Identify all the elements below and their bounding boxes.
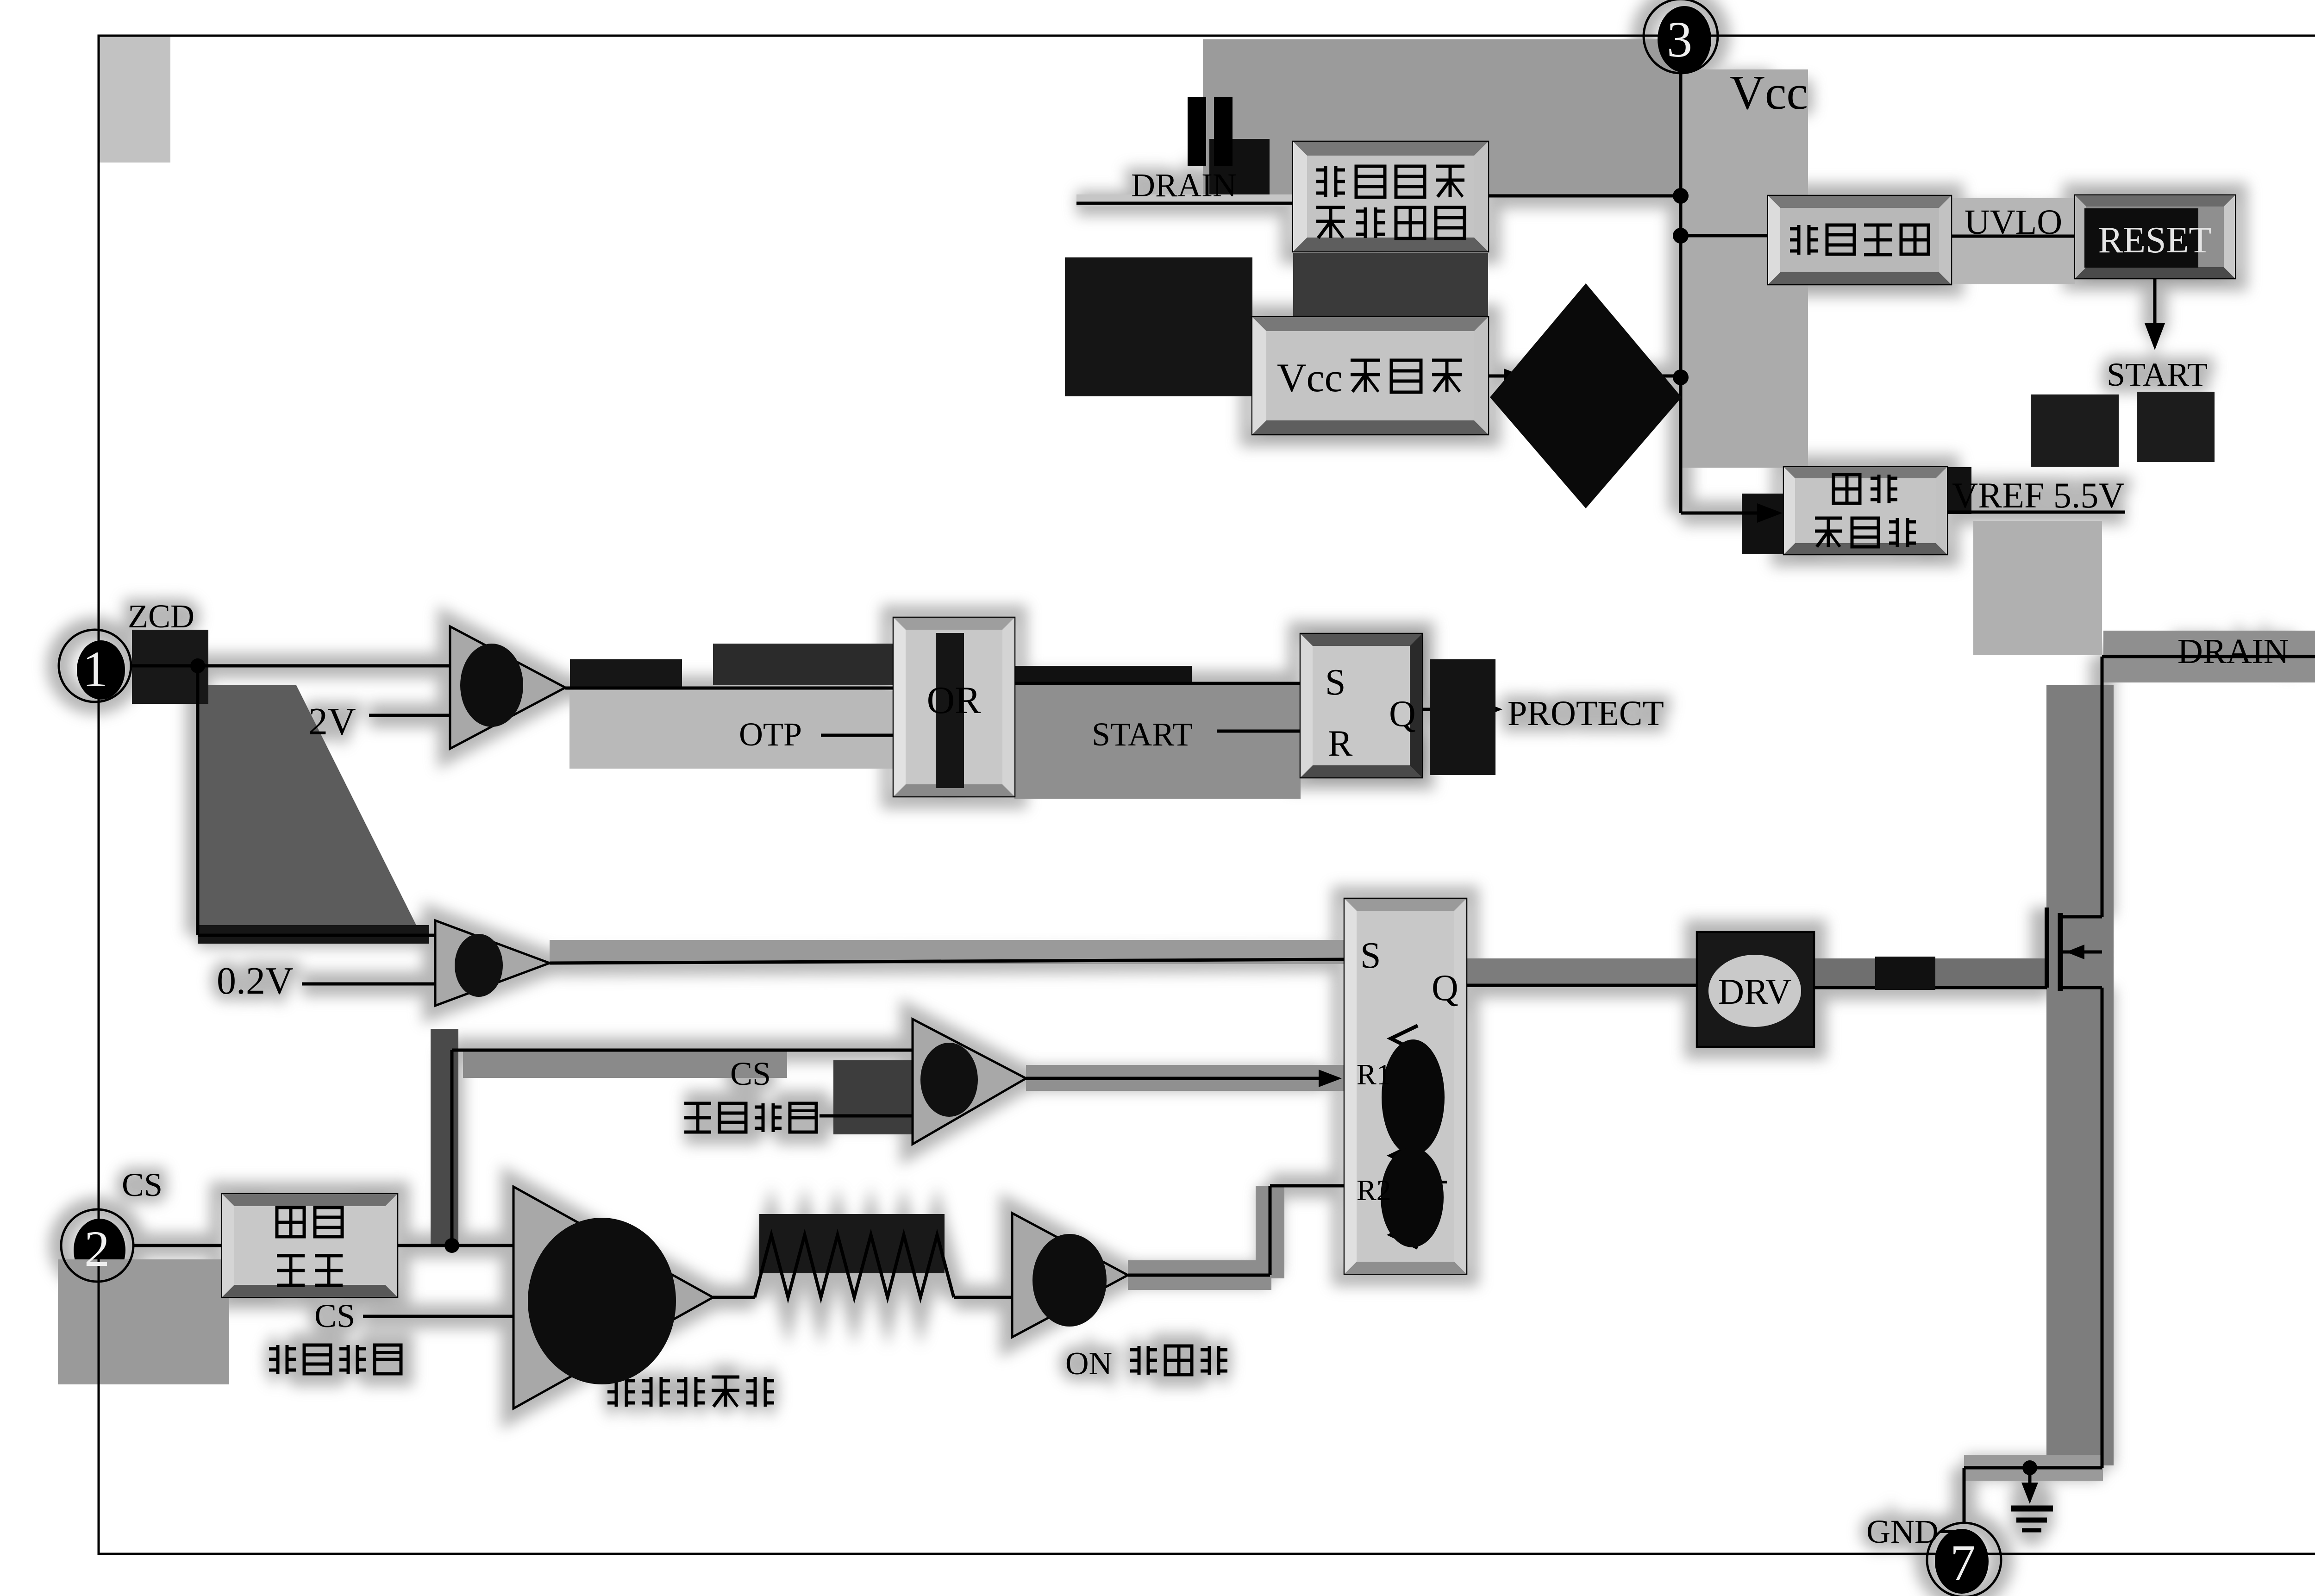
svg-text:R1: R1 bbox=[1357, 1058, 1391, 1091]
wire DRAIN to HV module bbox=[1076, 202, 1293, 205]
block: internal voltage rail (内部电压轨) bbox=[1784, 467, 1947, 554]
svg-text:0.2V: 0.2V bbox=[217, 959, 294, 1002]
wire GND stub down bbox=[2028, 1468, 2032, 1489]
wire OR to latch FF1 (START) bbox=[1014, 682, 1301, 685]
comparator U5 (ON comparator) bbox=[1012, 1213, 1128, 1337]
svg-text:ZCD: ZCD bbox=[128, 598, 194, 635]
svg-text:1: 1 bbox=[82, 641, 108, 697]
svg-text:START: START bbox=[2107, 356, 2208, 393]
svg-text:GND: GND bbox=[1866, 1513, 1939, 1550]
wire ZCD to 0.2V comparator bbox=[198, 934, 435, 937]
comparator U2 (0.2V threshold) bbox=[435, 920, 550, 1006]
svg-text:CS: CS bbox=[122, 1166, 163, 1203]
latch FF2 (SR with R1 R2) box bbox=[1345, 899, 1466, 1274]
block: VCC zener (VCC 稳压管) bbox=[1252, 317, 1488, 434]
pin 7 (GND) circle bbox=[1927, 1523, 2001, 1596]
node junction CS bbox=[444, 1238, 459, 1253]
svg-text:DRAIN: DRAIN bbox=[2177, 632, 2289, 671]
svg-text:S: S bbox=[1325, 662, 1346, 703]
gate: OR box bbox=[894, 618, 1014, 796]
svg-text:PROTECT: PROTECT bbox=[1508, 694, 1664, 733]
wire R1-R2 tap bbox=[1418, 1181, 1447, 1183]
wire CS to polarity box bbox=[133, 1244, 222, 1247]
pin 3 (Vcc) circle bbox=[1644, 0, 1718, 73]
wire FF2 Q to DRV bbox=[1466, 984, 1697, 987]
wire RESET to START bbox=[2153, 278, 2157, 332]
svg-text:R: R bbox=[1328, 723, 1353, 764]
wire ZCD to comparator bbox=[131, 664, 450, 668]
svg-text:CS: CS bbox=[314, 1297, 355, 1334]
node junction Vcc-UVdet bbox=[1673, 228, 1689, 244]
svg-text:Q: Q bbox=[1432, 968, 1458, 1008]
svg-text:RESET: RESET bbox=[2098, 220, 2211, 261]
wire zener to Vcc bbox=[1488, 375, 1681, 378]
wire UV-detect to RESET bbox=[1951, 235, 2075, 238]
svg-text:Vcc: Vcc bbox=[1277, 356, 1343, 401]
pin 2 (CS) circle bbox=[61, 1209, 133, 1282]
wire U1 output to OR bbox=[565, 687, 894, 690]
svg-text:CS: CS bbox=[730, 1055, 771, 1092]
label transconductance amp (跨导放大器) bbox=[615, 1377, 618, 1407]
wire FF1 R stub bbox=[1217, 730, 1301, 733]
wire 2V ref stub bbox=[369, 714, 450, 717]
svg-text:2: 2 bbox=[84, 1220, 110, 1277]
resistor R2 (internal) bbox=[1391, 1143, 1418, 1248]
block: undervoltage detect (欠压检测) bbox=[1768, 196, 1951, 284]
amplifier U3 (transconductance 跨导放大器) bbox=[513, 1187, 713, 1408]
block: polarity conversion (极性转换) bbox=[222, 1194, 397, 1297]
wire DRAIN vertical to MOSFET bbox=[2101, 657, 2104, 917]
svg-text:Q: Q bbox=[1389, 694, 1416, 734]
node junction GND bbox=[2022, 1460, 2037, 1475]
svg-text:DRV: DRV bbox=[1718, 971, 1791, 1012]
svg-text:7: 7 bbox=[1950, 1534, 1976, 1591]
transistor Q1 (output NMOS) bbox=[2058, 913, 2063, 991]
svg-text:OR: OR bbox=[927, 679, 981, 722]
wire FF1 Q to PROTECT bbox=[1422, 708, 1463, 711]
wire Vcc to internal rail bbox=[1681, 512, 1759, 515]
svg-text:3: 3 bbox=[1667, 11, 1692, 68]
wire GND label stub bbox=[1940, 1530, 1962, 1533]
wire ZCD branch down bbox=[196, 666, 200, 935]
wire polarity out to amp bbox=[397, 1244, 513, 1247]
svg-text:VREF 5.5V: VREF 5.5V bbox=[1952, 475, 2125, 515]
wire constant-current ref stub bbox=[363, 1315, 513, 1318]
block: HV supply control module (高压供电控制模块) bbox=[1293, 142, 1488, 251]
comparator U4 (current limit) bbox=[913, 1019, 1026, 1144]
comparator U1 (2V threshold) bbox=[450, 626, 565, 749]
svg-text:ON: ON bbox=[1065, 1346, 1112, 1382]
wire U2 output to FF2 S bbox=[550, 959, 1345, 963]
wire MOSFET source to GND rail bbox=[2101, 988, 2104, 1468]
wire 0.2V ref stub bbox=[302, 983, 435, 986]
latch FF1 (SR) box bbox=[1301, 634, 1422, 777]
wire Vcc to UV-detect bbox=[1681, 234, 1768, 238]
block: RESET generator bbox=[2075, 195, 2235, 278]
wire amp out to resistor bbox=[713, 1296, 755, 1299]
svg-text:S: S bbox=[1360, 935, 1381, 976]
wire GND horizontal bbox=[1964, 1466, 2102, 1470]
node junction Vcc-HV bbox=[1673, 188, 1689, 204]
svg-text:DRAIN: DRAIN bbox=[1131, 167, 1237, 204]
wire U4 output to FF2 R1 bbox=[1026, 1077, 1323, 1080]
wire CS branch up bbox=[450, 1050, 454, 1246]
wire OTP stub bbox=[821, 734, 894, 737]
wire resistor to ON comparator bbox=[954, 1296, 1012, 1299]
svg-text:OTP: OTP bbox=[739, 716, 802, 753]
node junction Vcc-zener bbox=[1673, 369, 1689, 385]
resistor R3 (zigzag) bbox=[755, 1235, 954, 1297]
wire Vcc rail vertical bbox=[1679, 73, 1683, 513]
wire DRAIN net horizontal bbox=[2102, 655, 2315, 658]
wire DRV to MOSFET gate bbox=[1814, 986, 2047, 989]
wire current-limit ref stub bbox=[820, 1114, 913, 1118]
wire HV module to Vcc bbox=[1488, 194, 1681, 198]
resistor R1 (internal) bbox=[1391, 1026, 1418, 1131]
wire U5 output routed to FF2 R2 bbox=[1128, 1274, 1270, 1277]
ground symbol bbox=[2011, 1506, 2053, 1512]
wire VREF output stub bbox=[1947, 511, 2125, 514]
pin 1 (ZCD) circle bbox=[59, 630, 131, 702]
wire GND to pin 7 bbox=[1963, 1468, 1966, 1523]
svg-text:R2: R2 bbox=[1357, 1174, 1391, 1207]
svg-text:2V: 2V bbox=[308, 700, 356, 743]
node junction ZCD bbox=[190, 658, 205, 673]
svg-text:START: START bbox=[1092, 716, 1193, 753]
block: DRV driver bbox=[1697, 932, 1814, 1047]
wire CS to limit comparator bbox=[452, 1049, 913, 1052]
svg-text:Vcc: Vcc bbox=[1730, 65, 1808, 119]
